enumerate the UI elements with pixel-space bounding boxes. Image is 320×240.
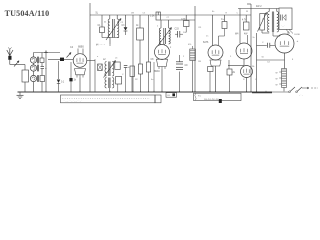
svg-text:2k: 2k [233, 72, 236, 74]
svg-text:C8: C8 [151, 59, 155, 61]
svg-text:6BE6: 6BE6 [78, 46, 85, 49]
svg-text:8: 8 [292, 59, 294, 61]
svg-text:2n: 2n [253, 37, 256, 39]
svg-text:C2: C2 [121, 22, 125, 24]
svg-text:R9: R9 [199, 27, 203, 29]
svg-text:C33: C33 [175, 29, 180, 31]
svg-text:W: W [246, 11, 248, 13]
svg-text:W4: W4 [235, 34, 239, 36]
svg-text:C7: C7 [167, 17, 171, 19]
svg-text:W4 454 456 4W: W4 454 456 4W [204, 99, 218, 101]
svg-text:1k: 1k [136, 25, 139, 27]
svg-text:1k: 1k [74, 80, 77, 82]
svg-text:1.5k: 1.5k [150, 16, 155, 18]
svg-text:B+: B+ [212, 11, 215, 13]
svg-text:– · –: – · – [299, 95, 304, 97]
svg-text:0.1: 0.1 [61, 82, 65, 84]
svg-text:4W·2: 4W·2 [256, 6, 262, 8]
svg-text:W: W [276, 85, 278, 87]
svg-text:C5: C5 [143, 13, 147, 15]
svg-text:C4: C4 [70, 46, 74, 49]
svg-text:P: P [262, 19, 264, 21]
svg-text:4n: 4n [151, 79, 154, 81]
svg-text:g: g [170, 47, 172, 49]
svg-text:C+: C+ [221, 19, 225, 21]
svg-text:C6: C6 [167, 95, 171, 97]
svg-text:L3: L3 [115, 58, 118, 60]
svg-text:· – ·: · – · [281, 26, 285, 28]
svg-text:6AT6: 6AT6 [203, 41, 209, 44]
svg-text:C4: C4 [267, 62, 271, 64]
svg-text:W: W [276, 79, 278, 81]
svg-text:2: 2 [183, 56, 185, 58]
svg-text:a: a [97, 56, 99, 58]
svg-text:W: W [276, 73, 278, 75]
svg-text:R: R [226, 13, 228, 15]
svg-text:DL96: DL96 [295, 34, 301, 36]
svg-text:C: C [122, 74, 124, 76]
svg-text:C: C [237, 13, 239, 15]
svg-text:DL: DL [252, 66, 256, 68]
svg-text:6BA6: 6BA6 [154, 70, 160, 73]
svg-text:L2: L2 [103, 59, 106, 61]
svg-text:k4 · – · –: k4 · – · – [96, 45, 106, 47]
svg-text:k: k [221, 56, 223, 58]
svg-text:R·x: R·x [198, 96, 201, 98]
svg-text:R: R [243, 79, 245, 81]
svg-text:47k: 47k [188, 44, 192, 46]
svg-text:50: 50 [262, 57, 265, 59]
svg-text:4k: 4k [104, 22, 107, 24]
svg-text:+: + [297, 39, 299, 43]
svg-text:· · – – · · – · – – · · – ·: · · – – · · – · – – · · – · [63, 101, 83, 103]
svg-text:C: C [262, 42, 264, 44]
svg-text:2: 2 [157, 26, 159, 28]
svg-text:1M: 1M [131, 13, 134, 15]
svg-text:C3: C3 [122, 25, 126, 27]
svg-text:C9: C9 [185, 65, 189, 67]
svg-text:TU504A/110: TU504A/110 [5, 9, 50, 18]
svg-text:1n: 1n [206, 36, 209, 38]
svg-text:1M: 1M [198, 61, 201, 63]
svg-text:R2: R2 [135, 79, 139, 81]
svg-text:5L: 5L [96, 13, 99, 15]
svg-text:100: 100 [183, 32, 187, 34]
svg-text:5: 5 [230, 56, 232, 58]
